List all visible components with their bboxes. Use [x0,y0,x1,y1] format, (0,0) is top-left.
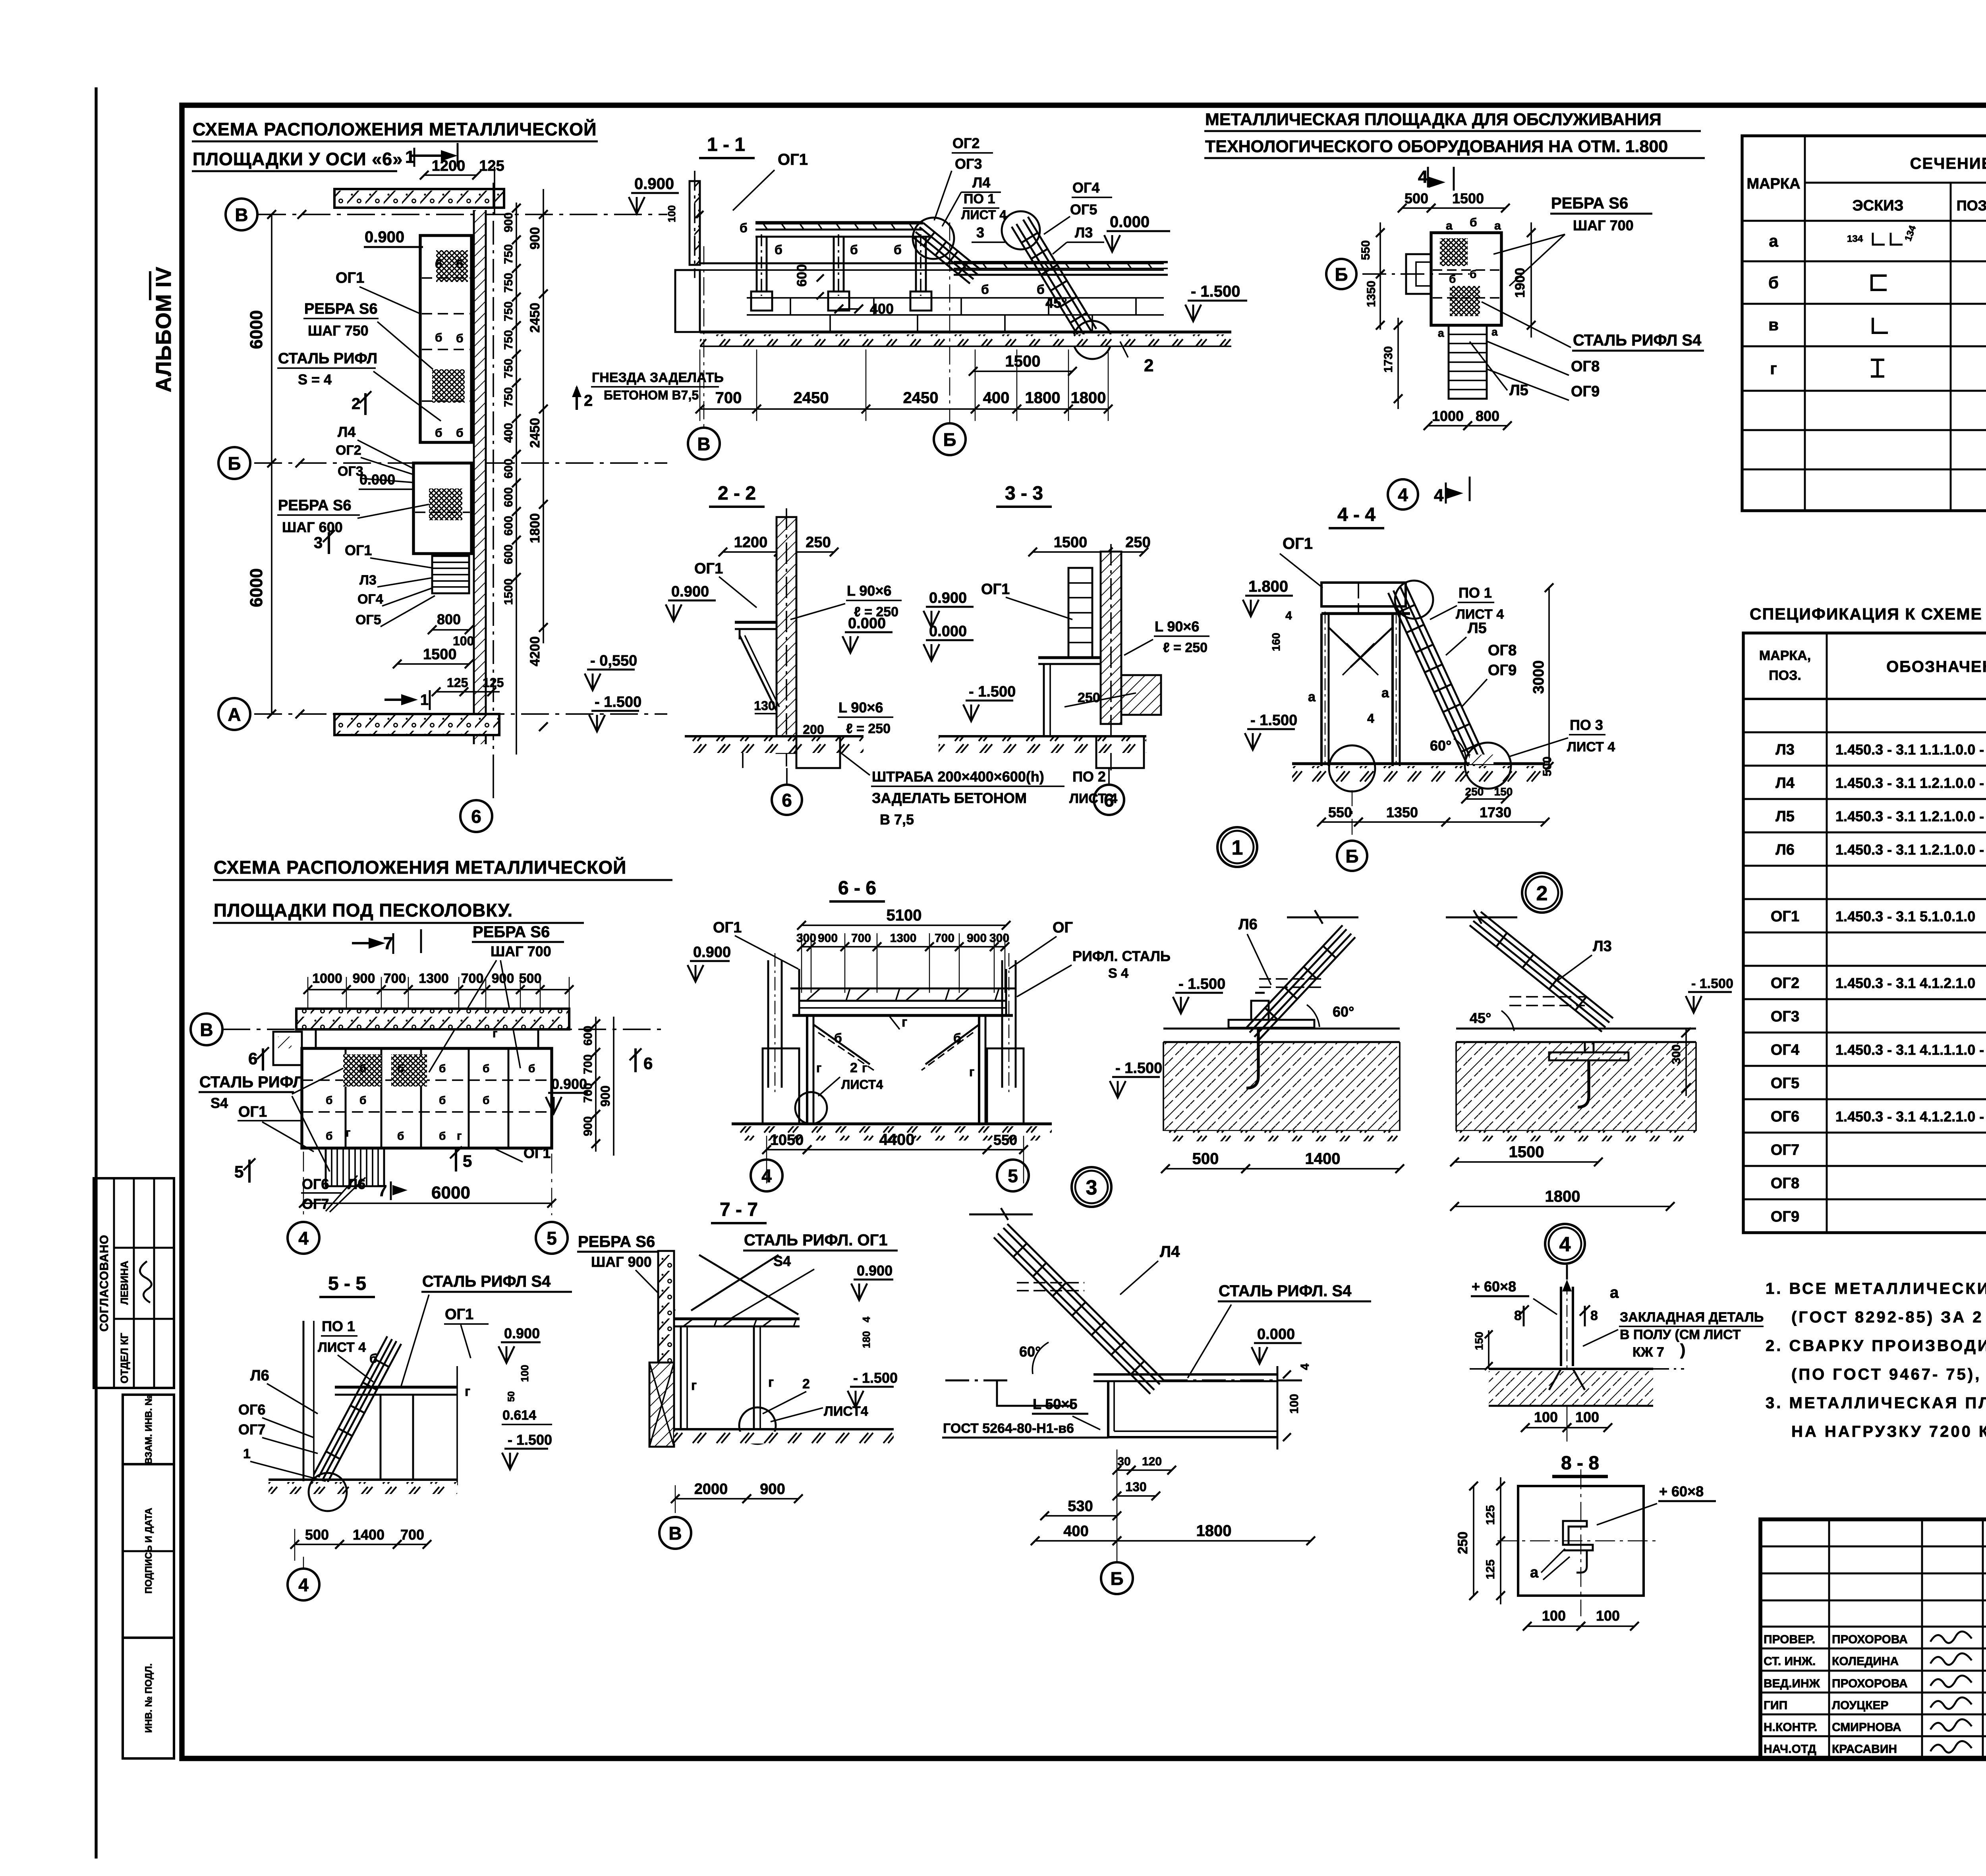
svg-text:100: 100 [1534,1409,1558,1425]
svg-text:АЛЬБОМ IV: АЛЬБОМ IV [152,266,176,392]
section 1-1: axis circle Б [934,423,966,455]
title block (штамп) [1760,1519,1986,1758]
svg-text:250: 250 [1455,1532,1470,1554]
svg-text:700: 700 [400,1527,424,1543]
svg-text:100: 100 [519,1365,531,1382]
section 6-6: ground [732,1124,1052,1141]
plan 1.800: platform [1406,216,1501,325]
plan axis-6: bottom concrete slab [334,714,499,735]
title: схема расположения металлической площадки у оси 6 [192,119,598,171]
svg-text:В: В [668,1523,682,1544]
svg-text:4: 4 [1285,609,1292,622]
svg-text:750: 750 [502,359,515,378]
svg-text:130: 130 [1125,1480,1146,1494]
section 1-1: 1500 dim and pos 2 [969,342,1153,376]
svg-text:550: 550 [1328,804,1352,820]
section 3-3: top dims 1500 250 [1028,534,1151,556]
svg-text:ЭСКИЗ: ЭСКИЗ [1853,197,1904,214]
section title 3-3 [996,483,1052,507]
peskolovka plan: top dimension chain [303,971,574,1009]
svg-text:4: 4 [1418,167,1428,187]
svg-text:1.450.3 - 3.1 1.2.1.0.0 - 03: 1.450.3 - 3.1 1.2.1.0.0 - 03 [1835,775,1986,791]
node 3 detail: ladder Л4 [969,1208,1180,1394]
svg-text:ОГ3: ОГ3 [955,156,982,172]
svg-text:б: б [1470,268,1476,280]
svg-text:СТАЛЬ РИФЛ: СТАЛЬ РИФЛ [278,350,377,367]
detail Л6 anchor (left) [1163,910,1400,1141]
svg-text:150: 150 [1494,786,1513,798]
svg-text:б: б [435,427,442,440]
svg-text:530: 530 [1068,1498,1093,1515]
section 5-5: levels right [498,1325,552,1469]
svg-text:Л5: Л5 [1775,808,1795,825]
svg-text:1350: 1350 [1386,804,1418,820]
svg-text:2. СВАРКУ ПРОИЗВОДИТЬ ПО Г: 2. СВАРКУ ПРОИЗВОДИТЬ ПО ГОСТ 5264- 80 Э… [1766,1337,1986,1355]
plan axis-6: lower platform outline [413,463,471,554]
svg-text:1: 1 [1232,836,1243,859]
svg-text:1.450.3 - 3.1 1.1.1.0.0 - 07: 1.450.3 - 3.1 1.1.1.0.0 - 07 [1835,741,1986,758]
svg-text:1800: 1800 [1545,1188,1580,1205]
svg-text:СХЕМА РАСПОЛОЖЕНИЯ МЕТАЛЛИЧ: СХЕМА РАСПОЛОЖЕНИЯ МЕТАЛЛИЧЕСКОЙ [214,857,626,878]
svg-text:б: б [456,258,464,271]
svg-text:ОГ4: ОГ4 [1771,1042,1799,1058]
plan axis-6: top concrete slab [334,158,504,214]
svg-text:125: 125 [479,158,504,174]
title: спецификация к схеме расположения металлических площадок [1750,605,1986,623]
node 4 detail: post and plate [1471,1265,1619,1370]
svg-text:2: 2 [802,1376,810,1392]
svg-text:ОГ4: ОГ4 [1072,179,1099,196]
svg-text:700: 700 [851,932,871,945]
section 1-1: ог2 ог3 Л4 по1 label stack [934,135,1007,242]
svg-text:900: 900 [967,932,987,945]
svg-text:1500: 1500 [423,646,457,663]
svg-text:7 - 7: 7 - 7 [720,1199,758,1220]
peskolovka plan: ог1 label left [238,1104,314,1152]
svg-text:Б: Б [1345,846,1358,867]
peskolovka plan: axis circle 5 [536,1222,568,1254]
svg-text:250: 250 [1125,534,1150,551]
svg-text:800: 800 [1476,408,1499,424]
node 4 detail: dims 100 100 [1521,1406,1612,1442]
svg-text:ОГ6: ОГ6 [1771,1108,1799,1125]
svg-text:4200: 4200 [527,636,543,666]
peskolovka plan: concrete slab strip [296,1009,569,1029]
svg-text:ШАГ 700: ШАГ 700 [1573,217,1634,234]
section 1-1: lower walkway [954,262,1168,297]
svg-text:2450: 2450 [527,418,543,448]
svg-text:6: 6 [782,790,792,811]
svg-text:Б: Б [1335,264,1348,285]
svg-text:ОГ2: ОГ2 [336,443,361,458]
svg-text:1. ВСЕ МЕТАЛЛИЧЕСКИЕ КОНСТР: 1. ВСЕ МЕТАЛЛИЧЕСКИЕ КОНСТРУКЦИИ ПОКРАСИ… [1766,1279,1986,1297]
svg-text:900: 900 [582,1116,595,1136]
svg-text:Л4: Л4 [972,174,990,191]
svg-text:СМИРНОВА: СМИРНОВА [1832,1721,1901,1734]
svg-text:Л6: Л6 [348,1176,365,1192]
svg-text:750: 750 [502,244,515,264]
section 2-2: ground and штраба [685,699,864,768]
section 7-7: ребра S6 шаг 900 label [577,1233,675,1310]
svg-text:0.900: 0.900 [365,228,404,246]
svg-text:б: б [435,331,442,344]
section 1-1: ladder Л4 top right [912,218,981,284]
peskolovka plan: section marks 6 [248,1047,653,1073]
svg-text:РЕБРА S6: РЕБРА S6 [473,923,550,941]
section 2-2: L90x6 labels and levels [585,583,902,736]
section title 6-6 [829,878,885,901]
section 6-6: top dims 5100 and chain [796,907,1010,993]
svg-text:1.450.3 - 3.1 1.2.1.0.0 - 09: 1.450.3 - 3.1 1.2.1.0.0 - 09 [1835,808,1986,824]
svg-text:750: 750 [502,387,515,407]
svg-text:СТАЛЬ РИФЛ S4: СТАЛЬ РИФЛ S4 [1573,332,1702,349]
svg-text:ОГ1: ОГ1 [1283,535,1313,552]
svg-text:500: 500 [519,971,542,986]
svg-text:ПРОВЕР.: ПРОВЕР. [1764,1633,1815,1646]
svg-text:7: 7 [378,1182,387,1200]
svg-text:СПЕЦИФИКАЦИЯ К СХЕМЕ РАСПО: СПЕЦИФИКАЦИЯ К СХЕМЕ РАСПОЛОЖЕНИЯ МЕТАЛЛ… [1750,605,1986,623]
section 4-4: ог1 label [1280,535,1323,588]
svg-text:3000: 3000 [1530,660,1547,694]
svg-text:600: 600 [502,516,515,536]
svg-text:700: 700 [582,1083,595,1103]
svg-text:5: 5 [1008,1166,1018,1186]
svg-text:6: 6 [471,806,481,827]
section 7-7: wall with concrete [649,1251,674,1447]
svg-text:1.450.3 - 3.1 4.1.1.1.0 - 01: 1.450.3 - 3.1 4.1.1.1.0 - 01 [1835,1042,1986,1058]
svg-text:600: 600 [794,264,809,287]
svg-text:СОГЛАСОВАНО: СОГЛАСОВАНО [98,1235,111,1332]
svg-text:ОГ1: ОГ1 [336,270,364,286]
plan 1.800: section mark 4 top [1418,167,1454,191]
svg-text:СТАЛЬ РИФЛ. S4: СТАЛЬ РИФЛ. S4 [1219,1282,1352,1300]
plan 1.800: top dims 500 1500 [1398,190,1510,212]
svg-text:Л6: Л6 [250,1367,269,1384]
svg-text:0.000: 0.000 [1110,213,1149,231]
svg-text:6: 6 [1104,790,1114,811]
svg-text:ПО 2: ПО 2 [1072,768,1106,785]
svg-text:6: 6 [248,1049,257,1068]
peskolovka plan: platform grid [273,1027,552,1148]
svg-text:ПО 3: ПО 3 [1570,717,1603,733]
plan axis-6: labels left side [277,228,441,627]
section title 2-2 [709,483,765,507]
section 6-6: axis circle 4 [751,1160,782,1191]
svg-text:300: 300 [989,932,1009,945]
node 4 detail: floor with hatch [1470,1369,1684,1406]
svg-text:1.450.3 - 3.1 5.1.0.1.0: 1.450.3 - 3.1 5.1.0.1.0 [1835,908,1975,924]
svg-text:Л3: Л3 [359,573,377,588]
svg-text:Л4: Л4 [1775,775,1795,791]
svg-text:1350: 1350 [1365,281,1378,307]
svg-text:ГИП: ГИП [1764,1699,1787,1712]
svg-text:8: 8 [1514,1308,1522,1323]
section 2-2: штраба note text [839,751,1117,828]
svg-text:L 90×6: L 90×6 [1155,618,1199,635]
svg-text:5: 5 [234,1162,243,1181]
plan axis-6: overall 6000 dimensions [247,210,276,718]
svg-text:г: г [465,1384,470,1399]
svg-text:КРАСАВИН: КРАСАВИН [1832,1743,1897,1756]
svg-text:0.900: 0.900 [693,944,731,961]
svg-text:б: б [397,1062,404,1075]
svg-text:5100: 5100 [887,907,922,924]
node 3 detail: circle 3 [1072,1167,1111,1207]
node 3 detail: axis circle Б [1101,1553,1133,1594]
svg-text:б: б [439,1094,446,1106]
node 4 detail: закладная деталь note [1583,1310,1764,1360]
section 3-3: ог1 label and levels [923,581,1072,721]
svg-text:А: А [228,704,241,725]
peskolovka plan: right dim chain [582,1017,614,1156]
svg-text:Л6: Л6 [1238,916,1258,933]
plan axis-6: section mark 1 bottom [384,690,430,710]
svg-text:2: 2 [584,392,593,409]
svg-text:ОГ9: ОГ9 [1488,662,1517,679]
node 3 detail: 0.000 level [1252,1326,1302,1364]
svg-text:1800: 1800 [527,513,543,543]
svg-text:б: б [775,243,782,257]
svg-text:4: 4 [1398,484,1408,505]
svg-text:900: 900 [598,1085,612,1106]
svg-text:4: 4 [1434,486,1444,505]
svg-text:Л4: Л4 [1160,1243,1180,1260]
svg-text:Б: Б [228,453,241,474]
axis circle Б (plan axis-6) [218,447,304,479]
svg-text:ОГ4: ОГ4 [357,592,383,607]
svg-text:б: б [1768,273,1779,292]
svg-text:ПЛОЩАДКИ ПОД ПЕСКОЛОВКУ.: ПЛОЩАДКИ ПОД ПЕСКОЛОВКУ. [214,900,513,921]
svg-text:ОГ3: ОГ3 [1771,1008,1799,1025]
plan axis-6: upper platform outline [420,235,471,442]
section 1-1: mid level line -0.550 [700,263,1164,270]
section 4-4: ground [1292,743,1545,791]
svg-text:1200: 1200 [734,534,768,551]
svg-text:Л3: Л3 [1593,938,1612,955]
left stamp: согласовано grid [94,1178,174,1388]
svg-text:): ) [1680,1341,1685,1359]
svg-text:500: 500 [1404,190,1428,207]
svg-text:б: б [483,1094,489,1106]
section 3-3: 250 dim and hatched block [1064,675,1161,715]
svg-text:0.900: 0.900 [929,590,967,606]
svg-text:- 1.500: - 1.500 [508,1432,552,1448]
svg-text:ВЗАМ. ИНВ. №: ВЗАМ. ИНВ. № [143,1395,154,1465]
svg-text:ТЕХНОЛОГИЧЕСКОГО ОБОРУДОВАНИЯ: ТЕХНОЛОГИЧЕСКОГО ОБОРУДОВАНИЯ НА ОТМ. 1.… [1205,137,1668,156]
svg-text:4: 4 [1367,711,1374,726]
svg-text:- 1.500: - 1.500 [969,683,1016,700]
album label: Альбом IV [150,266,176,392]
svg-text:1500: 1500 [1005,353,1041,370]
svg-text:ЛИСТ 4: ЛИСТ 4 [961,208,1007,222]
section 1-1: 0.900 level mark [629,175,703,222]
section 1-1: 600 and 400 dims [794,264,894,317]
section 1-1: ground line and foundation [675,270,1231,346]
svg-text:500: 500 [305,1527,329,1543]
svg-text:300: 300 [796,932,816,945]
svg-text:4: 4 [860,1316,872,1322]
svg-text:0.900: 0.900 [634,175,674,193]
svg-text:1400: 1400 [1305,1150,1341,1168]
svg-text:ЛИСТ4: ЛИСТ4 [824,1404,868,1419]
svg-text:+ 60×8: + 60×8 [1659,1483,1704,1500]
section 4-4: top platform [1270,583,1410,651]
node 3 detail: floor level line and channel [945,1363,1312,1449]
plan axis-6: axis line В [258,214,667,215]
svg-text:ОГ2: ОГ2 [952,135,979,151]
svg-text:ПО 1: ПО 1 [1459,585,1492,601]
svg-text:600: 600 [502,459,515,479]
svg-text:5: 5 [547,1228,557,1249]
svg-text:ОГ9: ОГ9 [1571,383,1600,400]
svg-text:900: 900 [492,971,514,986]
section 4-4: по 3 лист 4 [1509,717,1615,757]
plan 1.800: dims around platform [1359,222,1536,430]
svg-text:- 1.500: - 1.500 [1115,1060,1162,1077]
plan axis-6: lower dimensions [393,611,504,696]
plan axis-6: wall strip on axis 6 [474,183,493,774]
svg-text:б: б [1037,282,1045,297]
svg-text:КЖ 7: КЖ 7 [1632,1345,1664,1360]
svg-text:б: б [359,1094,366,1106]
svg-text:ОГ7: ОГ7 [238,1421,265,1438]
svg-text:1: 1 [420,692,429,708]
section 5-5: labels по1 лист4 [318,1318,377,1382]
svg-text:Л3: Л3 [1075,224,1093,241]
svg-text:600: 600 [502,544,515,564]
svg-text:РЕБРА S6: РЕБРА S6 [1551,195,1628,212]
svg-text:1200: 1200 [432,158,466,174]
svg-text:ПО 1: ПО 1 [322,1318,355,1334]
svg-text:б: б [528,1062,535,1075]
section 7-7: axis circle В [659,1517,691,1549]
svg-text:2: 2 [1536,882,1548,905]
section 2-2: wall [777,508,796,766]
svg-text:180: 180 [860,1331,872,1348]
table ведомость data rows [1768,224,1986,378]
section 2-2: axis circle 6 [772,768,802,815]
svg-text:ОГ1: ОГ1 [694,560,723,577]
svg-text:б: б [483,1062,489,1075]
svg-text:ОГ1: ОГ1 [713,919,742,936]
svg-text:125: 125 [447,676,468,690]
svg-text:а: а [1446,219,1453,232]
detail Л3 anchor (right) [1446,910,1733,1141]
svg-text:г: г [816,1061,821,1075]
svg-text:Л5: Л5 [1509,382,1528,399]
table спецификация data rows [1771,706,1986,1225]
svg-text:Л5: Л5 [1468,620,1487,637]
svg-text:ОГ5: ОГ5 [1771,1075,1799,1092]
section 6-6: лист4 label and circle [795,1060,883,1124]
svg-text:30: 30 [1117,1455,1130,1468]
section 1-1: platform deck [740,221,929,257]
section 3-3: stair and platform [1038,568,1101,736]
svg-text:МЕТАЛЛИЧЕСКАЯ ПЛОЩАДКА ДЛЯ: МЕТАЛЛИЧЕСКАЯ ПЛОЩАДКА ДЛЯ ОБСЛУЖИВАНИЯ [1205,110,1661,129]
svg-text:а: а [1491,326,1498,338]
svg-text:ОГ: ОГ [1053,919,1073,936]
svg-text:2 - 2: 2 - 2 [718,483,756,504]
svg-text:ПОДПИСЬ И ДАТА: ПОДПИСЬ И ДАТА [143,1508,154,1594]
svg-text:ОГ2: ОГ2 [1771,975,1799,992]
svg-text:100: 100 [1288,1394,1301,1414]
svg-text:1400: 1400 [353,1527,384,1543]
svg-text:4: 4 [761,1166,772,1186]
svg-text:750: 750 [502,273,515,293]
svg-text:ЗАКЛАДНАЯ ДЕТАЛЬ: ЗАКЛАДНАЯ ДЕТАЛЬ [1620,1310,1764,1325]
peskolovka plan: ог6 ог7 Л6 labels [301,1175,408,1212]
svg-text:1000: 1000 [312,971,342,986]
svg-text:130: 130 [754,699,775,713]
svg-text:600: 600 [502,487,515,507]
svg-text:СТАЛЬ РИФЛ S4: СТАЛЬ РИФЛ S4 [422,1273,551,1290]
section 7-7: сталь рифл ог1 label [731,1231,898,1318]
svg-text:5 - 5: 5 - 5 [328,1273,366,1294]
section 4-4: frame posts and braces [1308,612,1400,770]
svg-text:1500: 1500 [1509,1143,1544,1161]
svg-text:700: 700 [715,389,742,407]
svg-text:г: г [969,1065,974,1079]
svg-text:600: 600 [582,1026,595,1046]
svg-text:ВЕД.ИНЖ: ВЕД.ИНЖ [1764,1677,1820,1690]
svg-text:а: а [1308,689,1316,704]
section 6-6: axis circle 5 [997,1160,1029,1191]
svg-text:Н.КОНТР.: Н.КОНТР. [1764,1721,1817,1734]
svg-text:8: 8 [1590,1308,1598,1323]
svg-text:400: 400 [1063,1523,1088,1540]
section 5-5: ог1 label [444,1306,489,1358]
svg-text:ОГ5: ОГ5 [1070,201,1097,218]
svg-text:ОГ9: ОГ9 [1771,1208,1799,1225]
svg-text:750: 750 [502,301,515,321]
svg-text:б: б [456,427,464,440]
svg-text:S = 4: S = 4 [298,371,332,388]
node 3 detail: dims below [1031,1449,1315,1553]
svg-text:0.000: 0.000 [359,471,395,488]
svg-text:ОГ6: ОГ6 [238,1401,265,1418]
title: схема расположения металлической площадки под песколовку [213,857,672,923]
svg-text:900: 900 [760,1481,785,1498]
peskolovka plan: ребра S6 label top [429,923,564,1072]
svg-text:50: 50 [506,1391,517,1402]
section 4-4: labels по1 Л5 ог8 ог9 [1430,585,1517,707]
peskolovka plan: axis circle 4 [288,1222,319,1254]
svg-text:ЛИСТ 4: ЛИСТ 4 [1567,739,1615,755]
section 4-4: 3000 dim right [1530,583,1553,771]
plan axis-6: right dimension chains [502,189,548,755]
section 7-7: 0.900 level and dims right [848,1262,898,1407]
peskolovka plan: stair flight Л6 [326,1148,384,1186]
svg-text:3: 3 [976,224,984,241]
svg-text:МАРКА,: МАРКА, [1759,648,1811,663]
svg-text:6000: 6000 [247,310,266,349]
svg-text:700: 700 [384,971,406,986]
section 1-1: bottom dimension chain [695,349,1113,421]
plan 1.800: stair flight Л5 [1438,325,1498,399]
section 4-4: dims below [1317,757,1554,826]
section 5-5: сталь рифл S4 label [401,1273,572,1386]
svg-text:2: 2 [850,1060,858,1075]
section 1-1: ladder Л3 diagonal [1002,211,1111,359]
plan axis-6: stair flight Л3 [432,556,469,593]
svg-text:г: г [768,1375,774,1390]
svg-text:125: 125 [483,676,504,690]
svg-text:б: б [439,1130,446,1142]
svg-text:ОГ1: ОГ1 [981,581,1010,598]
svg-text:S4: S4 [211,1095,228,1111]
svg-text:6000: 6000 [431,1183,470,1202]
svg-text:б: б [834,1031,842,1045]
